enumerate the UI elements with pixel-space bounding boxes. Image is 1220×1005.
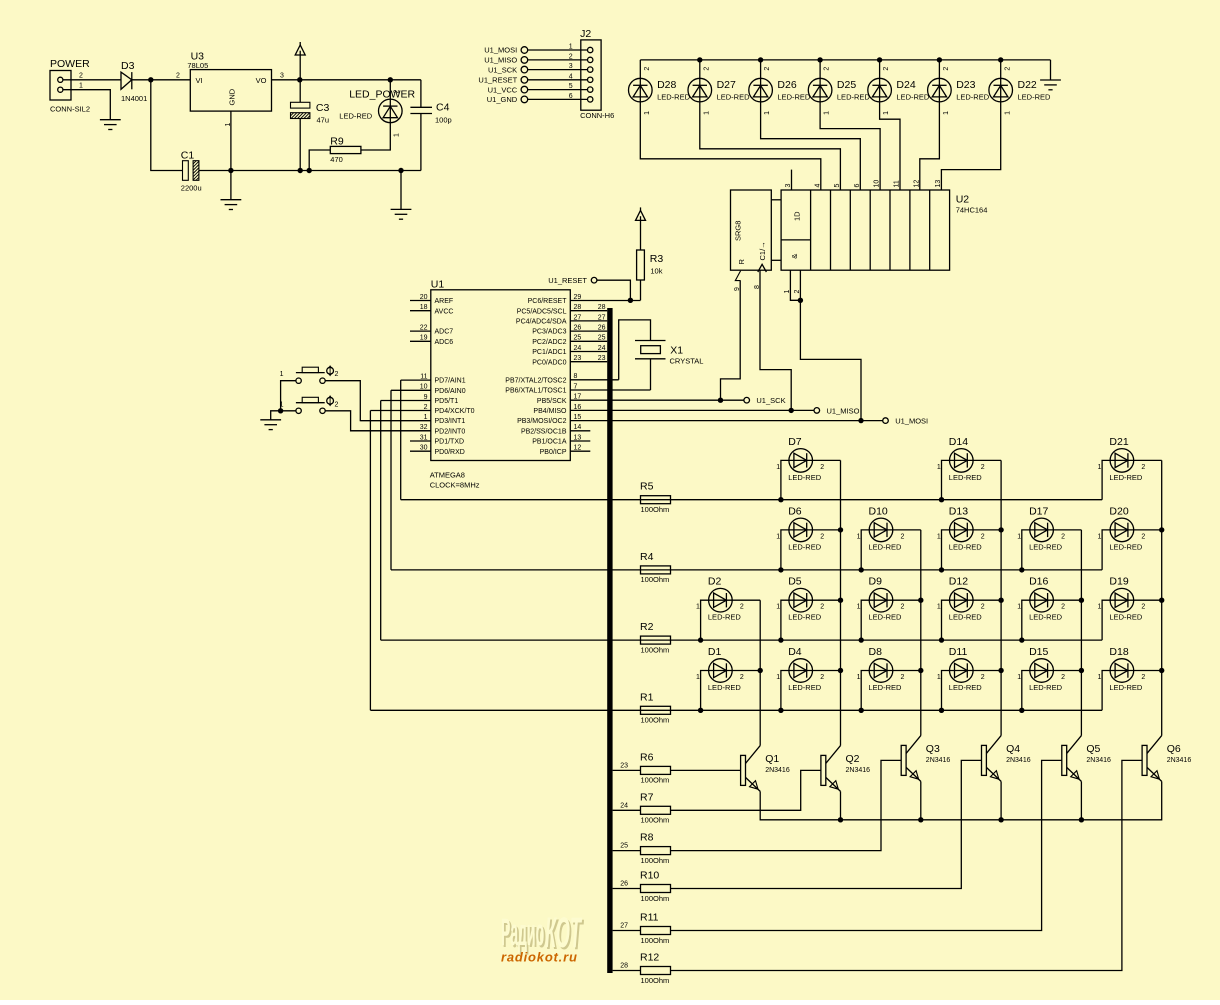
svg-text:25: 25 [620, 843, 628, 850]
svg-text:GND: GND [228, 88, 237, 105]
svg-text:U1_RESET: U1_RESET [478, 76, 517, 85]
svg-text:D13: D13 [949, 505, 968, 517]
svg-text:17: 17 [574, 394, 582, 401]
svg-text:1: 1 [1097, 674, 1101, 681]
svg-text:10: 10 [420, 384, 428, 391]
svg-text:24: 24 [574, 345, 582, 352]
svg-text:4: 4 [569, 73, 573, 80]
svg-text:2N3416: 2N3416 [926, 757, 951, 764]
svg-text:19: 19 [420, 335, 428, 342]
svg-text:D24: D24 [896, 79, 915, 91]
svg-text:X1: X1 [670, 345, 683, 357]
svg-text:16: 16 [574, 404, 582, 411]
svg-text:2200u: 2200u [181, 184, 202, 193]
svg-text:D4: D4 [788, 646, 802, 658]
svg-text:LED-RED: LED-RED [1109, 473, 1143, 482]
svg-text:PB7/XTAL2/TOSC2: PB7/XTAL2/TOSC2 [505, 377, 566, 384]
svg-text:9: 9 [734, 287, 741, 291]
svg-text:D5: D5 [788, 576, 802, 588]
svg-text:U1_MISO: U1_MISO [827, 406, 860, 415]
svg-text:D21: D21 [1109, 436, 1128, 448]
svg-text:Q6: Q6 [1167, 743, 1181, 755]
svg-text:LED-RED: LED-RED [717, 92, 751, 101]
svg-text:LED-RED: LED-RED [788, 683, 822, 692]
svg-text:9: 9 [424, 394, 428, 401]
svg-text:LED-RED: LED-RED [949, 613, 983, 622]
svg-text:24: 24 [598, 345, 606, 352]
svg-text:C3: C3 [316, 102, 330, 114]
svg-text:U2: U2 [956, 194, 970, 206]
svg-text:VO: VO [256, 76, 267, 85]
svg-text:2: 2 [820, 533, 824, 540]
svg-text:LED-RED: LED-RED [896, 92, 930, 101]
svg-text:LED-RED: LED-RED [777, 92, 811, 101]
svg-text:2: 2 [943, 67, 950, 71]
svg-text:100Ohm: 100Ohm [641, 816, 670, 825]
svg-text:2: 2 [901, 674, 905, 681]
svg-text:10: 10 [874, 180, 881, 188]
svg-text:1: 1 [1017, 533, 1021, 540]
svg-text:LED-RED: LED-RED [339, 112, 373, 121]
svg-text:78L05: 78L05 [187, 61, 208, 70]
svg-text:PC0/ADC0: PC0/ADC0 [532, 359, 566, 366]
svg-text:D12: D12 [949, 576, 968, 588]
svg-text:1: 1 [764, 111, 771, 115]
svg-text:2: 2 [1004, 67, 1011, 71]
svg-text:1: 1 [857, 674, 861, 681]
svg-text:D25: D25 [837, 79, 856, 91]
svg-text:1: 1 [776, 674, 780, 681]
svg-text:U1_RESET: U1_RESET [548, 276, 587, 285]
svg-text:28: 28 [574, 304, 582, 311]
svg-text:LED-RED: LED-RED [949, 683, 983, 692]
svg-text:1: 1 [784, 290, 791, 294]
svg-text:1: 1 [1097, 464, 1101, 471]
svg-text:LED-RED: LED-RED [708, 613, 742, 622]
svg-text:LED-RED: LED-RED [708, 683, 742, 692]
svg-text:1: 1 [1097, 533, 1101, 540]
svg-text:D27: D27 [717, 79, 736, 91]
svg-text:2: 2 [335, 371, 339, 378]
svg-text:CONN-H6: CONN-H6 [580, 111, 614, 120]
svg-text:31: 31 [420, 434, 428, 441]
svg-text:2: 2 [901, 604, 905, 611]
svg-text:LED-RED: LED-RED [869, 683, 903, 692]
svg-text:PB1/OC1A: PB1/OC1A [532, 439, 567, 446]
svg-text:2: 2 [703, 67, 710, 71]
svg-text:1N4001: 1N4001 [121, 94, 147, 103]
svg-text:2: 2 [335, 401, 339, 408]
svg-text:2: 2 [176, 73, 180, 80]
svg-text:LED_POWER: LED_POWER [349, 89, 415, 101]
svg-text:D28: D28 [657, 79, 676, 91]
svg-text:28: 28 [620, 963, 628, 970]
svg-text:1: 1 [776, 464, 780, 471]
svg-text:PC6/RESET: PC6/RESET [528, 298, 568, 305]
svg-text:6: 6 [569, 93, 573, 100]
svg-text:1: 1 [937, 604, 941, 611]
svg-text:D18: D18 [1109, 646, 1128, 658]
svg-text:2: 2 [1141, 674, 1145, 681]
svg-text:2: 2 [981, 464, 985, 471]
svg-text:R7: R7 [640, 791, 654, 803]
svg-text:1: 1 [883, 111, 890, 115]
svg-text:2: 2 [820, 674, 824, 681]
svg-text:LED-RED: LED-RED [869, 542, 903, 551]
svg-text:LED-RED: LED-RED [788, 473, 822, 482]
svg-text:2: 2 [1061, 604, 1065, 611]
svg-text:POWER: POWER [50, 58, 90, 70]
svg-text:U1_MOSI: U1_MOSI [484, 46, 517, 55]
svg-text:2: 2 [79, 73, 83, 80]
svg-text:2N3416: 2N3416 [765, 767, 790, 774]
svg-text:D19: D19 [1109, 576, 1128, 588]
svg-text:LED-RED: LED-RED [1018, 92, 1052, 101]
svg-text:D14: D14 [949, 436, 968, 448]
svg-text:1: 1 [1004, 111, 1011, 115]
svg-text:14: 14 [574, 424, 582, 431]
svg-text:2: 2 [824, 67, 831, 71]
svg-text:C1: C1 [181, 150, 195, 162]
svg-text:D9: D9 [869, 576, 883, 588]
svg-text:CONN-SIL2: CONN-SIL2 [50, 105, 90, 114]
svg-text:C4: C4 [436, 102, 450, 114]
svg-text:12: 12 [913, 180, 920, 188]
svg-text:2: 2 [644, 67, 651, 71]
svg-text:AVCC: AVCC [435, 308, 454, 315]
svg-text:47u: 47u [317, 116, 330, 125]
svg-text:2: 2 [981, 674, 985, 681]
svg-text:PC5/ADC5/SCL: PC5/ADC5/SCL [517, 308, 567, 315]
svg-text:LED-RED: LED-RED [1029, 613, 1063, 622]
svg-text:Радио: Радио [501, 912, 544, 954]
svg-text:CLOCK=8MHz: CLOCK=8MHz [430, 481, 480, 490]
svg-text:2: 2 [1061, 674, 1065, 681]
svg-text:R10: R10 [640, 870, 659, 882]
svg-text:D1: D1 [708, 646, 722, 658]
svg-text:2: 2 [901, 533, 905, 540]
svg-text:2: 2 [740, 604, 744, 611]
svg-text:LED-RED: LED-RED [788, 542, 822, 551]
svg-text:26: 26 [574, 325, 582, 332]
svg-text:2: 2 [794, 290, 801, 294]
svg-text:74HC164: 74HC164 [956, 206, 988, 215]
svg-text:D10: D10 [869, 505, 888, 517]
svg-text:2: 2 [1141, 533, 1145, 540]
svg-text:LED-RED: LED-RED [949, 473, 983, 482]
svg-text:C1/→: C1/→ [758, 241, 767, 260]
svg-text:R3: R3 [650, 253, 664, 265]
svg-text:1: 1 [1017, 604, 1021, 611]
svg-text:1: 1 [824, 111, 831, 115]
svg-text:Q5: Q5 [1086, 743, 1100, 755]
svg-text:LED-RED: LED-RED [869, 613, 903, 622]
svg-text:27: 27 [598, 314, 606, 321]
svg-text:13: 13 [574, 434, 582, 441]
svg-text:D3: D3 [121, 60, 135, 72]
svg-text:27: 27 [574, 314, 582, 321]
svg-text:ATMEGA8: ATMEGA8 [430, 471, 465, 480]
svg-text:2: 2 [820, 464, 824, 471]
svg-text:U1: U1 [431, 279, 445, 291]
svg-text:PB0/ICP: PB0/ICP [540, 449, 567, 456]
svg-text:470: 470 [330, 155, 343, 164]
svg-text:D2: D2 [708, 576, 722, 588]
svg-text:LED-RED: LED-RED [1029, 542, 1063, 551]
svg-text:5: 5 [834, 184, 841, 188]
svg-text:1: 1 [1097, 604, 1101, 611]
svg-text:2: 2 [740, 674, 744, 681]
svg-text:LED-RED: LED-RED [1109, 683, 1143, 692]
svg-text:U1_GND: U1_GND [487, 95, 518, 104]
svg-text:1: 1 [937, 674, 941, 681]
svg-text:PC4/ADC4/SDA: PC4/ADC4/SDA [516, 319, 567, 326]
svg-text:PB2/SS/OC1B: PB2/SS/OC1B [521, 428, 567, 435]
svg-text:30: 30 [420, 445, 428, 452]
svg-text:2N3416: 2N3416 [846, 767, 871, 774]
svg-text:2: 2 [569, 53, 573, 60]
svg-text:1: 1 [937, 464, 941, 471]
svg-text:R: R [737, 259, 746, 265]
svg-text:Q4: Q4 [1006, 743, 1020, 755]
svg-text:LED-RED: LED-RED [837, 92, 871, 101]
svg-text:100Ohm: 100Ohm [641, 894, 670, 903]
svg-text:23: 23 [574, 355, 582, 362]
svg-text:1: 1 [857, 604, 861, 611]
svg-text:R4: R4 [640, 551, 654, 563]
svg-text:PD6/AIN0: PD6/AIN0 [435, 388, 466, 395]
svg-text:&: & [790, 254, 799, 259]
svg-text:PD3/INT1: PD3/INT1 [435, 418, 466, 425]
svg-text:1: 1 [776, 604, 780, 611]
svg-text:U1_VCC: U1_VCC [488, 85, 518, 94]
svg-text:25: 25 [574, 335, 582, 342]
svg-text:1: 1 [943, 111, 950, 115]
svg-text:2N3416: 2N3416 [1086, 757, 1111, 764]
svg-text:PC2/ADC2: PC2/ADC2 [532, 339, 566, 346]
svg-text:2: 2 [424, 404, 428, 411]
svg-text:2: 2 [883, 67, 890, 71]
svg-text:PB4/MISO: PB4/MISO [533, 408, 567, 415]
svg-text:5: 5 [569, 83, 573, 90]
svg-text:LED-RED: LED-RED [956, 92, 990, 101]
svg-text:R2: R2 [640, 621, 654, 633]
svg-text:ADC7: ADC7 [435, 329, 454, 336]
svg-text:R5: R5 [640, 481, 654, 493]
svg-text:R8: R8 [640, 832, 654, 844]
svg-text:PC3/ADC3: PC3/ADC3 [532, 329, 566, 336]
svg-text:8: 8 [574, 373, 578, 380]
svg-text:D26: D26 [777, 79, 796, 91]
svg-text:26: 26 [598, 325, 606, 332]
svg-text:100Ohm: 100Ohm [641, 645, 670, 654]
svg-text:26: 26 [620, 881, 628, 888]
svg-text:PD4/XCK/T0: PD4/XCK/T0 [435, 408, 475, 415]
svg-text:18: 18 [420, 304, 428, 311]
svg-text:27: 27 [620, 923, 628, 930]
svg-text:PB5/SCK: PB5/SCK [537, 398, 567, 405]
svg-text:D22: D22 [1018, 79, 1037, 91]
svg-text:100Ohm: 100Ohm [641, 716, 670, 725]
svg-text:100p: 100p [435, 116, 452, 125]
svg-text:7: 7 [574, 383, 578, 390]
svg-text:28: 28 [598, 304, 606, 311]
svg-text:1: 1 [696, 604, 700, 611]
svg-text:R12: R12 [640, 952, 659, 964]
svg-text:D8: D8 [869, 646, 883, 658]
svg-text:D20: D20 [1109, 505, 1128, 517]
svg-text:2: 2 [981, 533, 985, 540]
svg-text:2N3416: 2N3416 [1006, 757, 1031, 764]
svg-text:1: 1 [703, 111, 710, 115]
svg-text:23: 23 [598, 355, 606, 362]
svg-text:2: 2 [981, 604, 985, 611]
svg-text:29: 29 [574, 294, 582, 301]
svg-text:2: 2 [1141, 604, 1145, 611]
svg-text:D17: D17 [1029, 505, 1048, 517]
svg-text:11: 11 [420, 374, 427, 381]
svg-text:100Ohm: 100Ohm [641, 505, 670, 514]
svg-text:24: 24 [620, 802, 628, 809]
svg-text:R6: R6 [640, 751, 654, 763]
svg-text:1: 1 [937, 533, 941, 540]
svg-text:6: 6 [854, 184, 861, 188]
svg-text:11: 11 [894, 180, 901, 187]
svg-text:100Ohm: 100Ohm [641, 575, 670, 584]
svg-text:23: 23 [620, 762, 628, 769]
svg-text:D16: D16 [1029, 576, 1048, 588]
svg-text:1: 1 [776, 533, 780, 540]
svg-text:12: 12 [574, 445, 582, 452]
svg-text:1: 1 [280, 371, 284, 378]
svg-text:1: 1 [569, 44, 573, 51]
svg-text:LED-RED: LED-RED [788, 613, 822, 622]
svg-text:CRYSTAL: CRYSTAL [670, 357, 704, 366]
svg-text:U1_MOSI: U1_MOSI [895, 417, 928, 426]
svg-text:SRG8: SRG8 [734, 221, 743, 241]
svg-text:13: 13 [935, 180, 942, 188]
svg-text:1D: 1D [793, 211, 802, 221]
svg-text:100Ohm: 100Ohm [641, 856, 670, 865]
svg-text:U1_MISO: U1_MISO [484, 56, 517, 65]
svg-text:100Ohm: 100Ohm [641, 776, 670, 785]
svg-text:1: 1 [696, 674, 700, 681]
svg-text:1: 1 [644, 111, 651, 115]
svg-text:20: 20 [420, 294, 428, 301]
svg-text:22: 22 [420, 325, 428, 332]
svg-text:R11: R11 [640, 912, 659, 924]
svg-text:PD2/INT0: PD2/INT0 [435, 428, 466, 435]
svg-text:D7: D7 [788, 436, 802, 448]
svg-text:1: 1 [394, 133, 401, 137]
svg-text:2: 2 [1061, 533, 1065, 540]
svg-text:4: 4 [814, 184, 821, 188]
svg-text:LED-RED: LED-RED [1109, 613, 1143, 622]
svg-text:2N3416: 2N3416 [1167, 757, 1192, 764]
svg-text:1: 1 [857, 533, 861, 540]
svg-text:100Ohm: 100Ohm [641, 936, 670, 945]
svg-text:R1: R1 [640, 691, 654, 703]
svg-text:VI: VI [196, 76, 203, 85]
svg-text:Q3: Q3 [926, 743, 940, 755]
svg-text:U1_SCK: U1_SCK [756, 396, 785, 405]
svg-text:D6: D6 [788, 505, 802, 517]
svg-text:1: 1 [79, 83, 83, 90]
svg-text:LED-RED: LED-RED [657, 92, 691, 101]
svg-text:D11: D11 [949, 646, 968, 658]
svg-text:PD0/RXD: PD0/RXD [435, 449, 465, 456]
svg-text:Q1: Q1 [765, 753, 779, 765]
svg-text:2: 2 [394, 90, 401, 94]
svg-text:ADC6: ADC6 [435, 339, 454, 346]
svg-text:100Ohm: 100Ohm [641, 976, 670, 985]
svg-text:2: 2 [764, 67, 771, 71]
svg-text:PB6/XTAL1/TOSC1: PB6/XTAL1/TOSC1 [505, 388, 566, 395]
svg-text:PB3/MOSI/OC2: PB3/MOSI/OC2 [517, 418, 567, 425]
svg-text:PD5/T1: PD5/T1 [435, 398, 459, 405]
svg-text:D23: D23 [956, 79, 975, 91]
svg-text:2: 2 [820, 604, 824, 611]
svg-text:8: 8 [754, 285, 761, 289]
svg-text:LED-RED: LED-RED [949, 542, 983, 551]
svg-text:3: 3 [785, 184, 792, 188]
svg-text:15: 15 [574, 414, 582, 421]
svg-text:PC1/ADC1: PC1/ADC1 [532, 349, 566, 356]
svg-text:3: 3 [280, 73, 284, 80]
svg-text:PD1/TXD: PD1/TXD [435, 439, 465, 446]
svg-text:J2: J2 [580, 28, 591, 40]
svg-text:10k: 10k [650, 267, 662, 276]
svg-text:LED-RED: LED-RED [1109, 542, 1143, 551]
svg-text:Q2: Q2 [846, 753, 860, 765]
svg-text:AREF: AREF [435, 298, 454, 305]
svg-text:3: 3 [569, 63, 573, 70]
svg-text:radiokot.ru: radiokot.ru [501, 950, 578, 965]
svg-text:R9: R9 [330, 136, 344, 148]
svg-text:25: 25 [598, 335, 606, 342]
svg-text:D15: D15 [1029, 646, 1048, 658]
svg-text:PD7/AIN1: PD7/AIN1 [435, 378, 466, 385]
svg-text:2: 2 [1141, 464, 1145, 471]
svg-text:1: 1 [1017, 674, 1021, 681]
svg-text:U1_SCK: U1_SCK [488, 65, 517, 74]
svg-text:LED-RED: LED-RED [1029, 683, 1063, 692]
